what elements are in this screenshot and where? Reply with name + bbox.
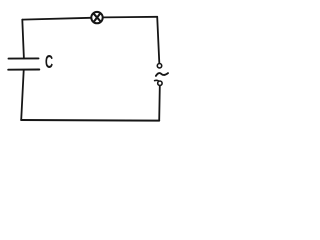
wire right lower segment xyxy=(158,86,161,120)
switch terminal upper (open circle) xyxy=(157,63,161,67)
capacitor C1 top plate xyxy=(9,57,39,59)
lamp X1 cross stroke 2 xyxy=(94,14,100,22)
wire left lower segment xyxy=(21,70,24,120)
wire bottom segment xyxy=(21,119,159,122)
label C (capacitor value) xyxy=(45,55,55,69)
wire right upper segment xyxy=(157,17,159,63)
AC source tilde ~ xyxy=(156,73,168,76)
wire top-right segment xyxy=(104,16,158,19)
lamp X1 cross stroke 1 xyxy=(94,14,101,22)
capacitor C1 bottom plate xyxy=(8,69,39,71)
wire left upper segment xyxy=(22,20,24,59)
wire top-left segment xyxy=(22,18,90,20)
lamp X1 circle xyxy=(91,12,102,23)
switch terminal lower top-left tick xyxy=(155,79,159,81)
switch terminal lower (open circle) xyxy=(158,81,162,85)
